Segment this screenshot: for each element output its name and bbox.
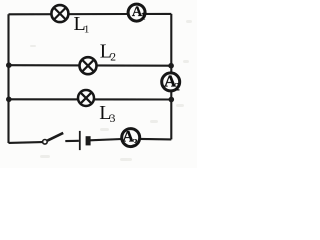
lamp L3	[78, 90, 94, 106]
svg-text:2: 2	[174, 81, 180, 93]
node: left junction branch 2	[6, 62, 12, 68]
ammeter A3	[122, 129, 140, 149]
lamp L1	[51, 5, 68, 22]
ammeter A1	[128, 4, 146, 22]
wire: third branch (L3)	[9, 98, 172, 100]
switch S (open)	[43, 133, 64, 144]
lamp L2	[80, 57, 97, 74]
wire: bottom left segment	[9, 141, 43, 144]
svg-text:3: 3	[132, 137, 138, 149]
node: right junction branch 3	[169, 97, 175, 103]
wire: battery to A3 segment	[90, 139, 122, 140]
wire: left vertical	[7, 14, 9, 143]
battery cell	[80, 131, 88, 150]
svg-text:1: 1	[141, 11, 146, 22]
node: right junction branch 2	[168, 63, 174, 69]
wire: top branch	[9, 13, 172, 16]
wire: A3 to bottom-right corner	[140, 138, 172, 141]
wire: right vertical	[170, 14, 172, 139]
wire: middle branch (L2)	[9, 64, 172, 67]
wire: switch to battery segment	[65, 140, 79, 142]
node: left junction branch 3	[6, 97, 12, 103]
ammeter A2	[162, 71, 181, 93]
